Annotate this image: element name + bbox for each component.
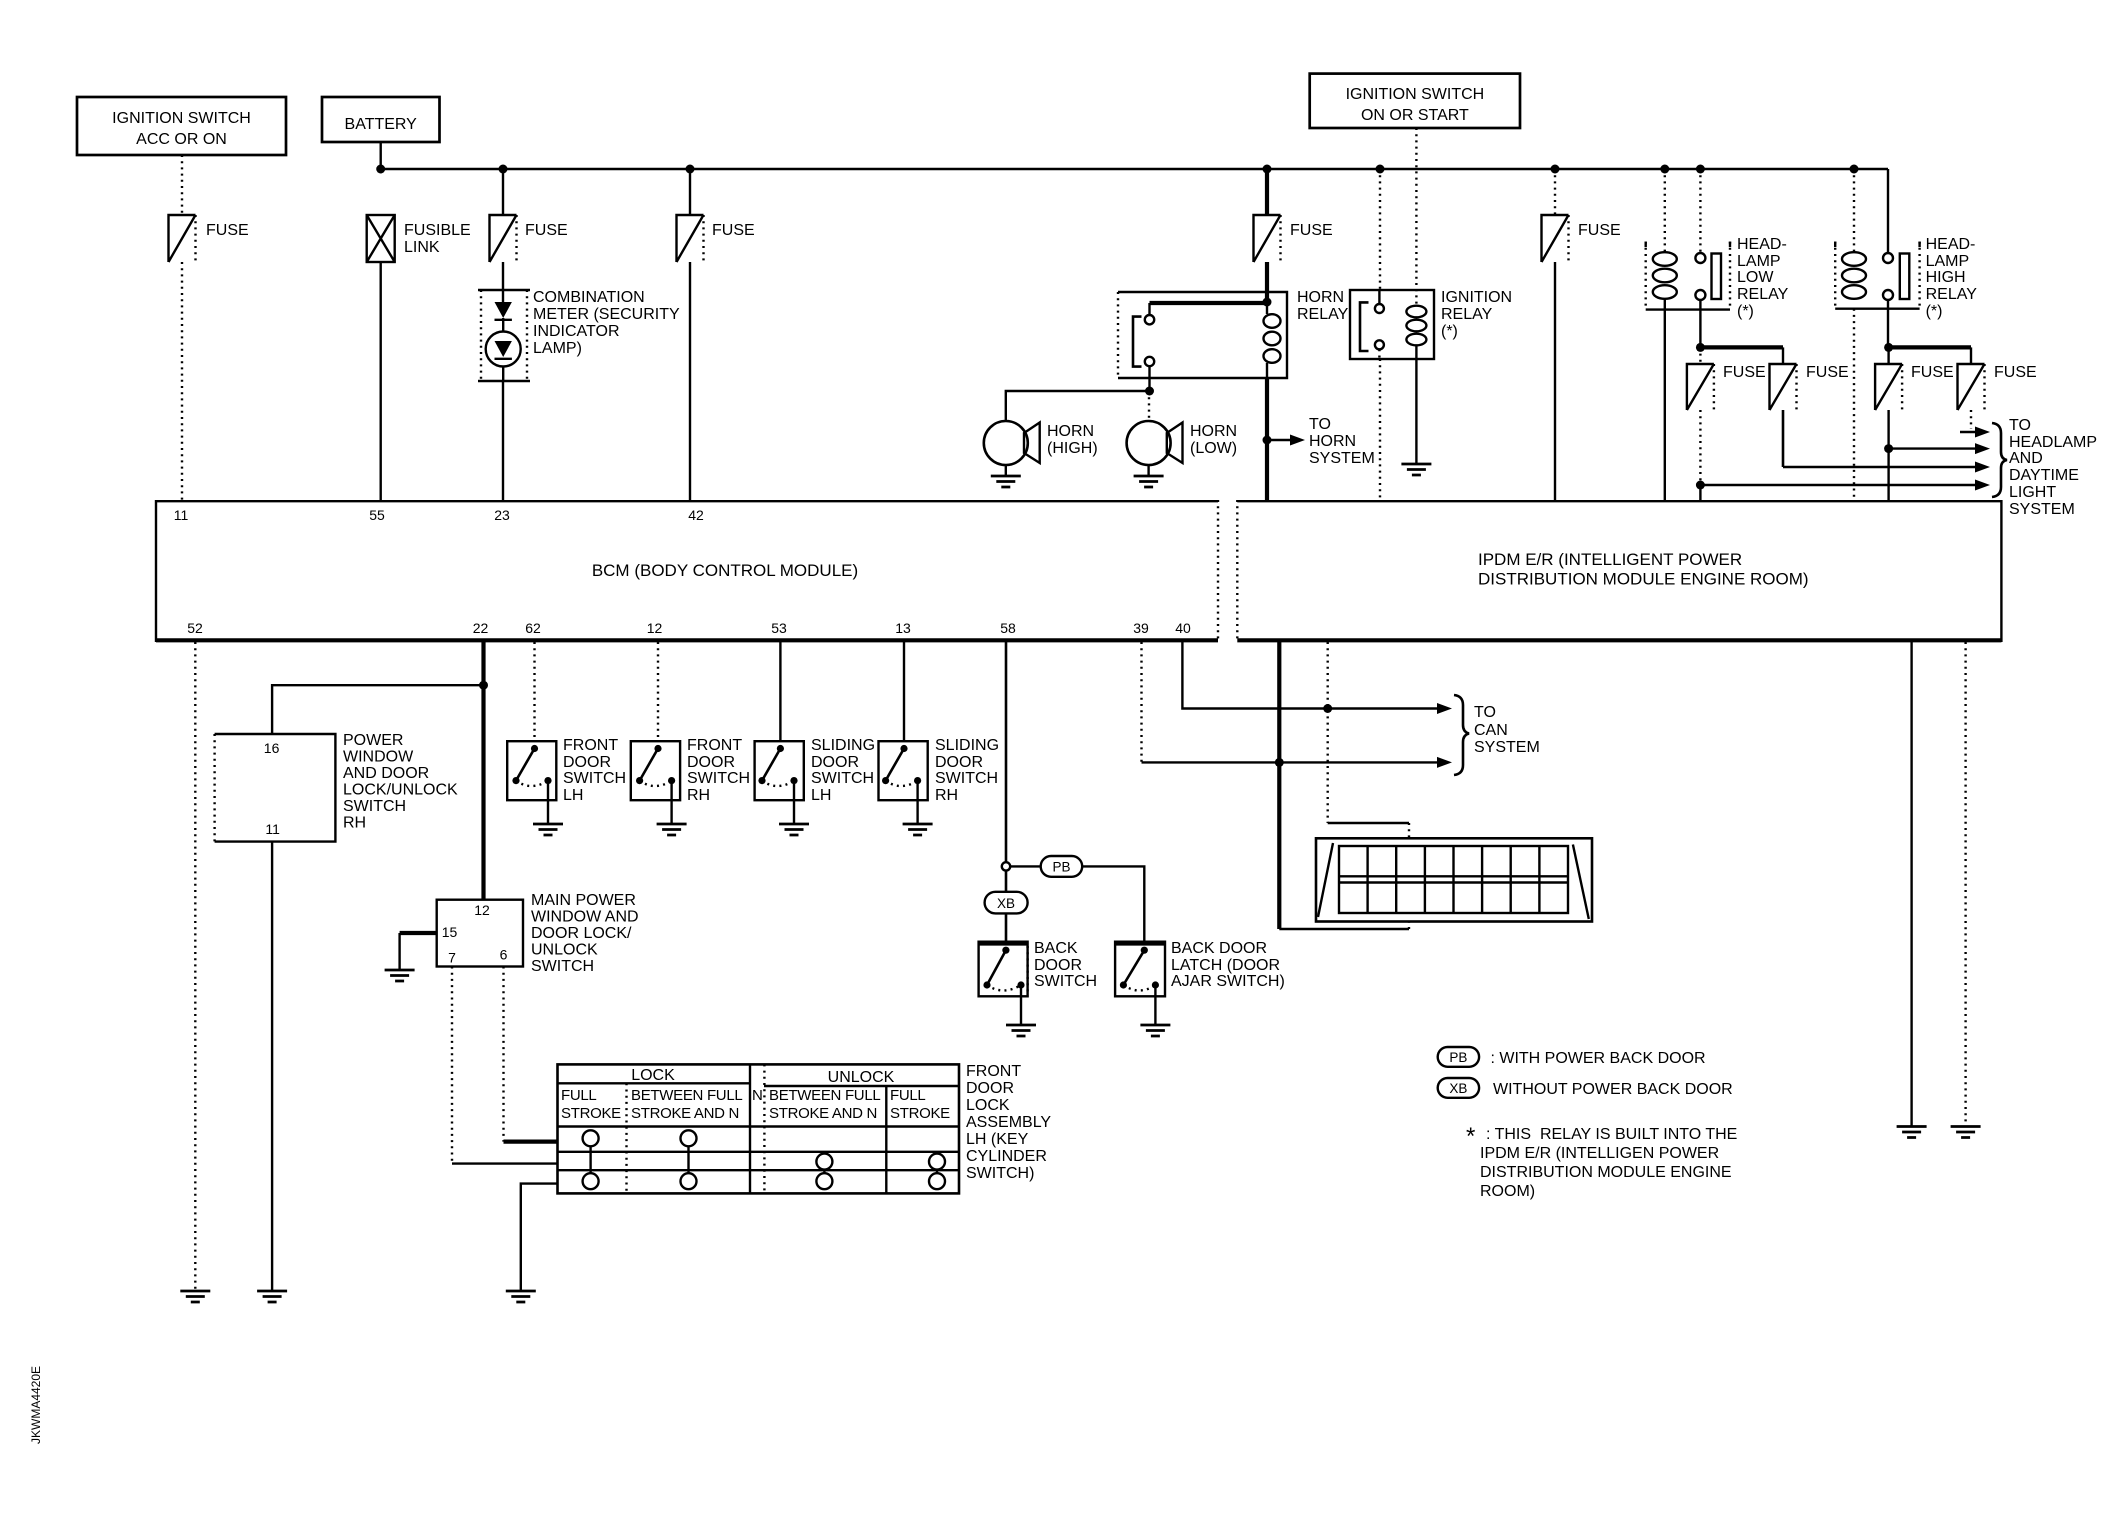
wire junction to IPDM top bbox=[1887, 449, 1889, 500]
svg-text:(*): (*) bbox=[1441, 323, 1458, 340]
svg-text:LAMP: LAMP bbox=[1926, 253, 1970, 270]
wire ignition relay coil to ground bbox=[1415, 345, 1417, 464]
wire bus to horn fuse bbox=[1265, 169, 1269, 215]
label to headlamp system bbox=[2009, 417, 2097, 518]
table contact row A col2 bbox=[681, 1130, 697, 1146]
svg-text:53: 53 bbox=[771, 620, 787, 636]
svg-text:TO: TO bbox=[2009, 417, 2031, 434]
svg-text:52: 52 bbox=[187, 620, 203, 636]
wire fuse split to fuse F7 bbox=[1782, 347, 1784, 364]
headlamp high relay plunger bbox=[1900, 254, 1910, 300]
wire pin 22 to main power window switch bbox=[481, 642, 485, 900]
node arrow-2 junction bbox=[1884, 444, 1893, 453]
svg-text:TO: TO bbox=[1309, 416, 1331, 433]
svg-text:IGNITION: IGNITION bbox=[1441, 289, 1512, 306]
BCM (body control module) box bbox=[156, 500, 1218, 642]
table contact links bbox=[591, 1146, 937, 1173]
wire junction to IPDM bbox=[1699, 485, 1701, 500]
wire pin 13 to sliding door switch RH bbox=[903, 642, 905, 741]
wire horn low to ground bbox=[1147, 465, 1149, 476]
wire circle to PB oval bbox=[1010, 865, 1040, 867]
svg-text:: WITH POWER BACK DOOR: : WITH POWER BACK DOOR bbox=[1486, 1050, 1706, 1067]
node low relay fuse split bbox=[1696, 343, 1705, 352]
back door latch (door ajar switch) bbox=[1115, 940, 1285, 996]
front door switch LH bbox=[507, 737, 626, 804]
svg-text:HEAD-: HEAD- bbox=[1926, 236, 1976, 253]
svg-text:UNLOCK: UNLOCK bbox=[531, 942, 598, 959]
wire bus end to headlamp high relay contact bbox=[1887, 169, 1889, 253]
svg-text:PB: PB bbox=[1449, 1050, 1467, 1065]
svg-text:STROKE: STROKE bbox=[890, 1105, 950, 1122]
svg-text:15: 15 bbox=[442, 924, 458, 940]
svg-text:BACK DOOR: BACK DOOR bbox=[1171, 940, 1267, 957]
wire sliding door switch RH to ground bbox=[916, 781, 918, 824]
table contact row C col2 bbox=[681, 1173, 697, 1189]
svg-text:SWITCH: SWITCH bbox=[563, 770, 626, 787]
headlamp high relay contacts bbox=[1883, 253, 1893, 300]
wire horn high to ground bbox=[1005, 465, 1007, 476]
svg-text:RH: RH bbox=[687, 787, 710, 804]
front door switch RH bbox=[631, 737, 750, 804]
svg-text:42: 42 bbox=[688, 507, 704, 523]
wire power window RH pin 11 to ground bbox=[271, 842, 273, 1291]
svg-text:FRONT: FRONT bbox=[563, 737, 618, 754]
wire branch to power window RH pin 16 bbox=[272, 685, 483, 734]
wire fuse F5 to IPDM bbox=[1554, 262, 1556, 500]
svg-text:LH (KEY: LH (KEY bbox=[966, 1131, 1029, 1148]
ground sliding door switch RH bbox=[903, 824, 933, 835]
table contact row A col1 bbox=[583, 1130, 599, 1146]
battery box bbox=[322, 97, 440, 142]
ignition relay contact lower bbox=[1375, 340, 1384, 349]
horn relay contact upper bbox=[1145, 303, 1154, 324]
wire pin 7 to key cylinder row B bbox=[451, 967, 453, 1164]
wire IPDM ground 2 bbox=[1964, 642, 1966, 1126]
wire fusible link to BCM pin 55 bbox=[380, 262, 382, 500]
note asterisk relay bbox=[1466, 1123, 1737, 1200]
svg-text:FUSE: FUSE bbox=[1723, 364, 1766, 381]
wire fuse F6 to arrow junction bbox=[1699, 410, 1701, 485]
node bus-ignition-relay bbox=[1376, 165, 1385, 174]
ground back door switch bbox=[1006, 1025, 1036, 1036]
fuse F1 (ACC feed) bbox=[169, 215, 249, 262]
fuse F8 bbox=[1875, 364, 1954, 410]
wire low relay coil to IPDM bbox=[1664, 299, 1666, 500]
svg-text:IGNITION SWITCH: IGNITION SWITCH bbox=[1346, 86, 1485, 103]
fuse F4 (horn) bbox=[1254, 215, 1333, 262]
wire bus to high relay coil bbox=[1853, 169, 1855, 252]
svg-text:FUSIBLE: FUSIBLE bbox=[404, 222, 471, 239]
wire horn relay contact to horns junction bbox=[1148, 366, 1150, 391]
wire ignition relay contact feed bbox=[1379, 169, 1381, 290]
svg-text:LAMP: LAMP bbox=[1737, 253, 1781, 270]
ground pin 52 bbox=[180, 1291, 210, 1302]
svg-text:IGNITION SWITCH: IGNITION SWITCH bbox=[112, 110, 251, 127]
node to-horn-system bbox=[1263, 436, 1272, 445]
headlamp high relay box bbox=[1835, 236, 1977, 320]
node branch circle PB bbox=[1002, 862, 1010, 870]
headlamp low relay plunger bbox=[1712, 254, 1722, 300]
svg-text:STROKE AND N: STROKE AND N bbox=[769, 1105, 877, 1122]
svg-text:LOCK: LOCK bbox=[631, 1067, 675, 1084]
wire fuse F2 to combination meter bbox=[502, 262, 504, 290]
svg-text:FUSE: FUSE bbox=[1578, 222, 1621, 239]
svg-text:XB: XB bbox=[997, 896, 1015, 911]
node horn relay feed bbox=[1263, 298, 1272, 307]
headlamp low relay coil bbox=[1653, 252, 1677, 299]
fuse F2 (security lamp) bbox=[490, 215, 568, 262]
wire back door switch to ground bbox=[1020, 985, 1022, 1025]
ground main power window bbox=[385, 970, 415, 981]
node bus-highrelay-coil bbox=[1850, 165, 1859, 174]
ground IPDM 1 bbox=[1897, 1127, 1927, 1138]
svg-text:PB: PB bbox=[1052, 860, 1070, 875]
svg-text:ACC OR ON: ACC OR ON bbox=[136, 131, 227, 148]
svg-text:STROKE: STROKE bbox=[561, 1105, 621, 1122]
svg-text:LOCK: LOCK bbox=[966, 1097, 1010, 1114]
wire front door switch LH to ground bbox=[547, 781, 549, 824]
wire bus to fuse F3 bbox=[689, 169, 691, 215]
label to CAN system bbox=[1474, 704, 1540, 756]
arrow headlamp 1 bbox=[1960, 427, 1990, 438]
wire ignition switch to relay coil bbox=[1415, 128, 1417, 306]
svg-text:AND DOOR: AND DOOR bbox=[343, 765, 429, 782]
svg-text:(*): (*) bbox=[1926, 303, 1943, 320]
svg-text:11: 11 bbox=[265, 821, 280, 837]
wire bus to headlamp low relay contact bbox=[1699, 169, 1701, 253]
node power window branch bbox=[479, 681, 488, 690]
wire ignition relay contact to IPDM bbox=[1378, 349, 1381, 500]
wire fuse F9 dotted tail bbox=[1970, 410, 1972, 429]
svg-text:SLIDING: SLIDING bbox=[811, 737, 875, 754]
wire sliding door switch LH to ground bbox=[793, 781, 795, 824]
key cylinder switch table bbox=[558, 1064, 960, 1193]
svg-text:DOOR: DOOR bbox=[563, 754, 611, 771]
sliding door switch LH bbox=[755, 737, 875, 804]
arrow to horn system bbox=[1267, 416, 1375, 467]
svg-text:FRONT: FRONT bbox=[687, 737, 742, 754]
ground power window RH bbox=[257, 1291, 287, 1302]
node arrow-4 junction bbox=[1696, 481, 1705, 490]
table contact row C col3 bbox=[816, 1173, 832, 1189]
wire fuse F7 to arrow 3 bbox=[1782, 410, 1785, 467]
svg-text:6: 6 bbox=[500, 947, 508, 963]
svg-text:FUSE: FUSE bbox=[1994, 364, 2037, 381]
svg-text:METER (SECURITY: METER (SECURITY bbox=[533, 306, 680, 323]
svg-text:11: 11 bbox=[174, 507, 189, 523]
svg-text:HORN: HORN bbox=[1309, 433, 1356, 450]
svg-text:FULL: FULL bbox=[561, 1087, 596, 1104]
wire pin 52 to ground bbox=[194, 642, 196, 1291]
node bus-fuse23 bbox=[499, 165, 508, 174]
wire IPDM to connector (dotted) bbox=[1326, 642, 1328, 823]
node high relay fuse split bbox=[1884, 343, 1893, 352]
horn relay box bbox=[1118, 289, 1349, 378]
IPDM E/R box bbox=[1237, 500, 2001, 642]
ground back door latch bbox=[1140, 1025, 1170, 1036]
svg-text:BATTERY: BATTERY bbox=[345, 116, 418, 133]
wire IPDM ground 1 bbox=[1910, 642, 1912, 1126]
svg-text:HEADLAMP: HEADLAMP bbox=[2009, 434, 2097, 451]
svg-text:ASSEMBLY: ASSEMBLY bbox=[966, 1114, 1051, 1131]
svg-text:DOOR: DOOR bbox=[811, 754, 859, 771]
wire ACC switch to fuse bbox=[181, 155, 183, 215]
wire fuse F8 down bbox=[1887, 410, 1889, 449]
svg-text:IPDM E/R (INTELLIGENT POWER: IPDM E/R (INTELLIGENT POWER bbox=[1478, 550, 1742, 569]
svg-text:FUSE: FUSE bbox=[1806, 364, 1849, 381]
svg-text:DOOR: DOOR bbox=[687, 754, 735, 771]
svg-text:SWITCH: SWITCH bbox=[1034, 973, 1097, 990]
svg-text:: THIS RELAY IS BUILT INTO TH: : THIS RELAY IS BUILT INTO THE bbox=[1486, 1126, 1737, 1143]
svg-text:SWITCH: SWITCH bbox=[687, 770, 750, 787]
svg-text:FUSE: FUSE bbox=[525, 222, 568, 239]
svg-text:COMBINATION: COMBINATION bbox=[533, 289, 645, 306]
svg-text:SLIDING: SLIDING bbox=[935, 737, 999, 754]
horn relay armature bracket bbox=[1133, 317, 1142, 367]
node bus-horn-fuse bbox=[1263, 165, 1272, 174]
sliding door switch RH bbox=[879, 737, 1000, 804]
ignition switch ACC box bbox=[77, 97, 286, 155]
svg-text:SYSTEM: SYSTEM bbox=[1309, 450, 1375, 467]
fuse F3 bbox=[677, 215, 755, 262]
svg-text:ROOM): ROOM) bbox=[1480, 1183, 1535, 1200]
ground key cylinder bbox=[506, 1291, 536, 1302]
svg-text:7: 7 bbox=[448, 950, 456, 966]
svg-text:58: 58 bbox=[1000, 620, 1016, 636]
wire front door switch RH to ground bbox=[670, 781, 672, 824]
svg-text:16: 16 bbox=[264, 740, 280, 756]
node bus-lowrelay-coil bbox=[1660, 165, 1669, 174]
svg-text:SWITCH: SWITCH bbox=[343, 798, 406, 815]
svg-text:HORN: HORN bbox=[1047, 423, 1094, 440]
svg-text:XB: XB bbox=[1449, 1081, 1467, 1096]
svg-text:DOOR LOCK/: DOOR LOCK/ bbox=[531, 925, 632, 942]
svg-text:HEAD-: HEAD- bbox=[1737, 236, 1787, 253]
horn relay contact lower bbox=[1145, 357, 1154, 366]
svg-text:BETWEEN FULL: BETWEEN FULL bbox=[769, 1087, 880, 1104]
wire IPDM to connector (solid) bbox=[1277, 642, 1281, 929]
wire junction to horn low bbox=[1148, 391, 1150, 421]
ground front door switch RH bbox=[657, 824, 687, 835]
wire pin 6 to key cylinder row A bbox=[502, 967, 504, 1142]
wire battery to bus bbox=[380, 142, 382, 169]
legend XB oval bbox=[1438, 1078, 1733, 1098]
svg-text:WINDOW: WINDOW bbox=[343, 749, 414, 766]
headlamp high relay coil bbox=[1842, 252, 1866, 299]
svg-text:MAIN POWER: MAIN POWER bbox=[531, 892, 636, 909]
svg-text:BCM (BODY CONTROL MODULE): BCM (BODY CONTROL MODULE) bbox=[592, 561, 858, 580]
node CAN line 2 junction bbox=[1275, 758, 1284, 767]
svg-text:62: 62 bbox=[525, 620, 541, 636]
table contact row B col4 bbox=[929, 1154, 945, 1170]
arrow CAN 2 bbox=[1437, 757, 1452, 768]
svg-text:LATCH (DOOR: LATCH (DOOR bbox=[1171, 957, 1280, 974]
wire pin 40 to CAN line 1 bbox=[1182, 642, 1443, 709]
fuse F5 (IPDM feed) bbox=[1542, 215, 1621, 262]
svg-text:FULL: FULL bbox=[890, 1087, 925, 1104]
svg-text:12: 12 bbox=[474, 902, 490, 918]
wire pin 58 to back door switch bbox=[1005, 642, 1008, 942]
svg-text:FUSE: FUSE bbox=[712, 222, 755, 239]
svg-text:IPDM E/R (INTELLIGEN POWER: IPDM E/R (INTELLIGEN POWER bbox=[1480, 1145, 1719, 1162]
wire split into fuse F6 bbox=[1699, 347, 1701, 364]
node bus-fuse42 bbox=[686, 165, 695, 174]
svg-text:LOCK/UNLOCK: LOCK/UNLOCK bbox=[343, 782, 458, 799]
svg-text:22: 22 bbox=[473, 620, 489, 636]
headlamp low relay contacts bbox=[1695, 253, 1705, 300]
svg-text:SWITCH: SWITCH bbox=[935, 770, 998, 787]
svg-text:(LOW): (LOW) bbox=[1190, 440, 1237, 457]
power window and door lock/unlock switch RH box bbox=[215, 732, 458, 842]
ignition relay armature bracket bbox=[1360, 302, 1369, 351]
svg-text:(HIGH): (HIGH) bbox=[1047, 440, 1098, 457]
fuse F6 bbox=[1687, 364, 1766, 410]
svg-text:SWITCH: SWITCH bbox=[531, 958, 594, 975]
brace headlamp system bbox=[1992, 423, 2007, 497]
svg-text:RELAY: RELAY bbox=[1441, 306, 1493, 323]
fusible link bbox=[367, 215, 471, 262]
wire pin 12 to front door switch RH bbox=[657, 642, 659, 741]
wire bus to headlamp low relay coil bbox=[1664, 169, 1666, 252]
wire into fuse F9 bbox=[1970, 347, 1972, 364]
svg-text:SYSTEM: SYSTEM bbox=[1474, 739, 1540, 756]
svg-text:55: 55 bbox=[369, 507, 385, 523]
connector joint graphic bbox=[1316, 838, 1592, 921]
table contact row C col1 bbox=[583, 1173, 599, 1189]
horn (high) bbox=[984, 421, 1098, 465]
svg-text:RH: RH bbox=[343, 815, 366, 832]
svg-text:FUSE: FUSE bbox=[1290, 222, 1333, 239]
svg-text:WINDOW AND: WINDOW AND bbox=[531, 909, 639, 926]
svg-text:HORN: HORN bbox=[1190, 423, 1237, 440]
svg-text:DOOR: DOOR bbox=[935, 754, 983, 771]
wire horn relay top bar bbox=[1150, 301, 1268, 305]
svg-text:FUSE: FUSE bbox=[206, 222, 249, 239]
brace CAN system bbox=[1454, 695, 1469, 775]
svg-text:AND: AND bbox=[2009, 450, 2043, 467]
horn (low) bbox=[1127, 421, 1238, 465]
table contact row C col4 bbox=[929, 1173, 945, 1189]
wire table row C to ground bbox=[521, 1184, 558, 1291]
svg-text:RELAY: RELAY bbox=[1926, 286, 1978, 303]
wire high relay contact down bbox=[1887, 300, 1889, 347]
svg-text:(*): (*) bbox=[1737, 303, 1754, 320]
wire bus to fuse F2 bbox=[502, 169, 504, 215]
svg-text:40: 40 bbox=[1175, 620, 1191, 636]
ground ignition relay bbox=[1401, 464, 1431, 475]
svg-text:TO: TO bbox=[1474, 704, 1496, 721]
node bus-lowrelay-contact bbox=[1696, 165, 1705, 174]
svg-text:BETWEEN FULL: BETWEEN FULL bbox=[631, 1087, 742, 1104]
svg-text:12: 12 bbox=[647, 620, 663, 636]
combination meter (security indicator lamp) bbox=[478, 289, 680, 381]
svg-text:DOOR: DOOR bbox=[1034, 957, 1082, 974]
wire horn relay coil to IPDM bbox=[1265, 378, 1269, 500]
svg-text:SWITCH: SWITCH bbox=[811, 770, 874, 787]
wire pin 39 to CAN line 2 bbox=[1140, 642, 1142, 762]
node CAN line 1 junction bbox=[1323, 704, 1332, 713]
wire fuse F3 to BCM pin 42 bbox=[689, 262, 691, 500]
svg-text:LH: LH bbox=[563, 787, 583, 804]
svg-text:BACK: BACK bbox=[1034, 940, 1078, 957]
node bus-ipdm-fuse bbox=[1551, 165, 1560, 174]
fuse F9 bbox=[1958, 364, 2037, 410]
wire back door latch to ground bbox=[1154, 985, 1156, 1025]
legend PB oval bbox=[1438, 1047, 1706, 1067]
back door switch bbox=[979, 940, 1098, 996]
svg-text:INDICATOR: INDICATOR bbox=[533, 323, 620, 340]
PB option oval bbox=[1041, 856, 1083, 877]
svg-text:CYLINDER: CYLINDER bbox=[966, 1148, 1047, 1165]
arrow headlamp 3 bbox=[1783, 462, 1990, 473]
svg-text:UNLOCK: UNLOCK bbox=[828, 1069, 895, 1086]
wire fuse F1 to BCM pin 11 bbox=[181, 262, 183, 500]
wire high relay coil to IPDM bbox=[1853, 309, 1855, 500]
svg-text:HIGH: HIGH bbox=[1926, 269, 1966, 286]
horn relay coil bbox=[1264, 302, 1281, 378]
ground sliding door switch LH bbox=[779, 824, 809, 835]
ignition switch ON/START box bbox=[1310, 74, 1520, 128]
svg-text:WITHOUT POWER BACK DOOR: WITHOUT POWER BACK DOOR bbox=[1493, 1081, 1733, 1098]
wire pin 53 to sliding door switch LH bbox=[779, 642, 781, 741]
svg-text:LINK: LINK bbox=[404, 239, 440, 256]
wire split into fuse F8 bbox=[1887, 347, 1889, 364]
ground front door switch LH bbox=[533, 824, 563, 835]
ground horn low bbox=[1134, 476, 1164, 487]
table contact row B col3 bbox=[816, 1154, 832, 1170]
svg-text:SWITCH): SWITCH) bbox=[966, 1165, 1034, 1182]
svg-text:39: 39 bbox=[1133, 620, 1149, 636]
fuse F7 bbox=[1770, 364, 1849, 410]
svg-text:23: 23 bbox=[494, 507, 510, 523]
ground IPDM 2 bbox=[1951, 1127, 1981, 1138]
svg-text:STROKE AND N: STROKE AND N bbox=[631, 1105, 739, 1122]
wire split to fuse F9 bbox=[1889, 345, 1971, 349]
main power window and door lock/unlock switch box bbox=[437, 892, 639, 975]
svg-text:FUSE: FUSE bbox=[1911, 364, 1954, 381]
ground horn high bbox=[991, 476, 1021, 487]
ignition relay coil bbox=[1406, 306, 1426, 346]
arrow CAN 1 bbox=[1437, 703, 1452, 714]
label front door lock assembly bbox=[966, 1063, 1051, 1182]
arrow headlamp 2 bbox=[1889, 443, 1990, 454]
arrow headlamp 4 bbox=[1700, 480, 1990, 491]
ignition relay box bbox=[1350, 289, 1512, 359]
wire combination meter to BCM pin 23 bbox=[502, 381, 504, 500]
svg-text:JKWMA4420E: JKWMA4420E bbox=[29, 1366, 43, 1444]
svg-text:DISTRIBUTION MODULE ENGINE: DISTRIBUTION MODULE ENGINE bbox=[1480, 1164, 1732, 1181]
node bus-battery bbox=[376, 165, 385, 174]
svg-text:DOOR: DOOR bbox=[966, 1080, 1014, 1097]
wire bus to IPDM fuse bbox=[1554, 169, 1556, 215]
svg-text:DAYTIME: DAYTIME bbox=[2009, 467, 2079, 484]
svg-text:RELAY: RELAY bbox=[1737, 286, 1789, 303]
headlamp low relay box bbox=[1646, 236, 1789, 320]
svg-text:LAMP): LAMP) bbox=[533, 340, 582, 357]
wire split to fuse F7 bbox=[1700, 345, 1783, 349]
svg-text:RELAY: RELAY bbox=[1297, 306, 1349, 323]
svg-text:ON OR START: ON OR START bbox=[1361, 107, 1469, 124]
ignition relay contact upper bbox=[1375, 290, 1384, 313]
wire low relay contact down bbox=[1699, 300, 1701, 347]
svg-text:LH: LH bbox=[811, 787, 831, 804]
svg-text:CAN: CAN bbox=[1474, 722, 1508, 739]
wire power bus bbox=[381, 168, 1888, 171]
wire pin 15 to ground bbox=[400, 931, 437, 935]
svg-text:HORN: HORN bbox=[1297, 289, 1344, 306]
svg-text:LOW: LOW bbox=[1737, 269, 1774, 286]
svg-text:POWER: POWER bbox=[343, 732, 403, 749]
